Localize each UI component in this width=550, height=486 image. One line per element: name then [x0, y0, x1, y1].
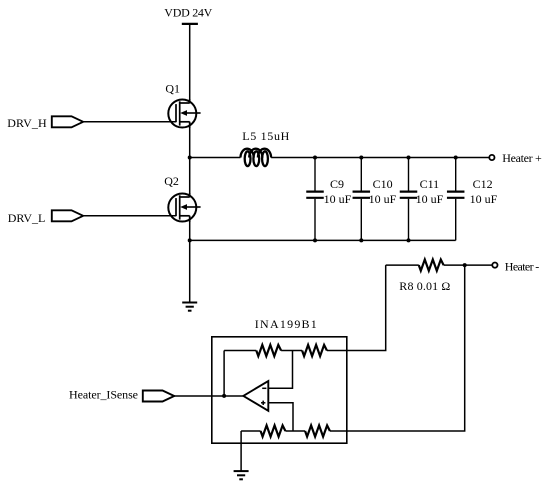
wire op-amp output to Heater_ISense: [174, 395, 243, 397]
node junction dot C9 bottom: [313, 238, 317, 242]
node junction dot C10 bottom: [359, 238, 363, 242]
capacitor C9: [306, 158, 324, 241]
capacitor C11: [400, 158, 418, 241]
wire DRV_L to Q2 gate: [83, 215, 176, 217]
wire bottom capacitor rail: [190, 239, 456, 241]
wire between top resistors: [281, 350, 302, 352]
svg-text:10 uF: 10 uF: [324, 192, 352, 206]
wire top row to box edge: [327, 350, 347, 352]
node junction dot Q1-Q2 midpoint: [188, 156, 192, 160]
svg-text:DRV_L: DRV_L: [8, 211, 46, 225]
svg-text:10 uF: 10 uF: [369, 192, 397, 206]
svg-text:DRV_H: DRV_H: [7, 116, 47, 130]
wire R8 right down to INA bottom row: [330, 265, 465, 431]
svg-text:INA199B1: INA199B1: [255, 317, 317, 331]
svg-text:Q2: Q2: [164, 174, 179, 188]
power symbol VDD bar: [182, 23, 198, 25]
svg-text:VDD 24V: VDD 24V: [164, 6, 212, 20]
svg-text:C12: C12: [473, 177, 493, 191]
terminal Heater -: [492, 263, 497, 268]
resistor R8: [419, 260, 444, 271]
wire R8 left down to INA top row: [347, 265, 386, 350]
svg-text:10 uF: 10 uF: [470, 192, 498, 206]
node junction dot C9 top: [313, 156, 317, 160]
svg-text:Heater +: Heater +: [502, 151, 542, 165]
wire between bottom resistors: [285, 430, 305, 432]
ground power stage: [182, 303, 197, 311]
op-amp minus sign: [262, 387, 266, 389]
node junction dot C12 top: [454, 156, 458, 160]
op-amp triangle INA internal: [243, 381, 268, 411]
svg-text:R8 0.01 Ω: R8 0.01 Ω: [399, 279, 450, 293]
IC box INA199B1: [212, 337, 347, 443]
node junction dot R8 right: [463, 263, 467, 267]
wire inverting input tap: [268, 351, 292, 389]
svg-text:Heater -: Heater -: [505, 260, 540, 274]
capacitor C10: [353, 158, 371, 241]
ground INA: [234, 471, 249, 479]
wire Q1 source to Q2 drain: [189, 122, 191, 197]
port flag DRV_H: [52, 116, 83, 127]
wire Q2 source down to ground: [189, 216, 191, 303]
resistor INA top-left: [256, 345, 281, 356]
svg-text:C9: C9: [330, 177, 344, 191]
wire L5 to Heater+ terminal: [271, 157, 489, 159]
transistor Q2: [168, 193, 200, 222]
wire left vertical to op-amp output node: [223, 351, 225, 396]
wire non-inverting input tap: [268, 403, 293, 431]
resistor INA bottom-left: [261, 425, 286, 436]
terminal Heater +: [489, 155, 494, 160]
svg-text:C11: C11: [420, 177, 440, 191]
wire INA bottom row to ground: [240, 431, 242, 471]
wire R8 to Heater- terminal: [444, 264, 493, 266]
svg-text:Q1: Q1: [165, 81, 180, 95]
svg-text:L5 15uH: L5 15uH: [242, 129, 289, 143]
capacitor C12: [447, 158, 465, 241]
node junction dot op-amp output: [222, 394, 226, 398]
svg-text:Heater_ISense: Heater_ISense: [69, 388, 138, 402]
svg-text:C10: C10: [373, 177, 393, 191]
inductor L5: [241, 149, 272, 166]
wire INA top row: [224, 350, 256, 352]
svg-text:10 uF: 10 uF: [416, 192, 444, 206]
node junction dot C11 top: [407, 156, 411, 160]
port flag Heater_ISense: [143, 391, 174, 402]
node junction dot C10 top: [359, 156, 363, 160]
wire midpoint node to L5: [190, 157, 241, 159]
resistor INA bottom-right: [305, 425, 330, 436]
wire VDD rail down to Q1 drain: [189, 24, 191, 103]
resistor INA top-right: [302, 345, 327, 356]
transistor Q1: [168, 99, 200, 128]
wire DRV_H to Q1 gate: [83, 121, 176, 123]
wire R8 row left segment: [386, 264, 419, 266]
port flag DRV_L: [52, 210, 83, 221]
op-amp plus sign: [261, 401, 265, 405]
node junction dot bottom rail: [188, 238, 192, 242]
node junction dot C11 bottom: [407, 238, 411, 242]
wire INA bottom row: [241, 430, 261, 432]
